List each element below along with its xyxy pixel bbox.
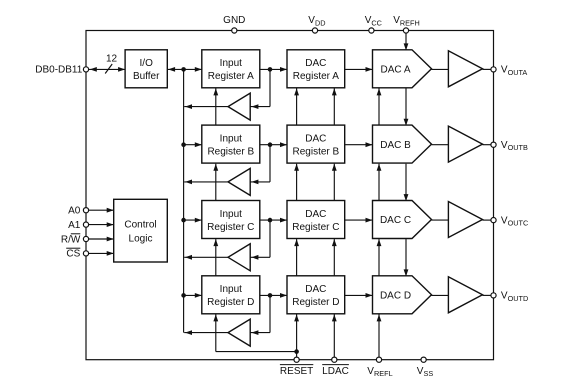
op-amp D [448, 277, 482, 313]
svg-text:Register D: Register D [207, 297, 254, 308]
wire RW input to control logic [89, 237, 114, 242]
wire DB0-DB11 to I/O buffer (bidirectional) [89, 67, 125, 72]
svg-text:Register C: Register C [207, 222, 254, 233]
svg-text:Register B: Register B [293, 147, 340, 158]
svg-text:R/W: R/W [61, 234, 81, 245]
wire CS input to control logic [89, 251, 114, 256]
wire op-amp A to V<sub>OUTA</sub> terminal [483, 68, 494, 70]
wire V<sub>REFH</sub> chain DAC C to DAC D [404, 239, 409, 276]
node: register D output junction [268, 293, 273, 298]
DAC register B [287, 125, 345, 163]
wire control chain Input Register C to Input Register B [213, 164, 218, 201]
wire Input Register D to DAC Register D [260, 293, 287, 298]
wire V<sub>REFL</sub> terminal to DAC D [377, 314, 382, 359]
wire bus to Input Register D [184, 293, 202, 298]
terminal RESET [280, 357, 313, 377]
wire bus to Input Register B [184, 142, 202, 147]
terminal VOUTB [491, 140, 528, 152]
wire DAC Register B to DAC B [345, 142, 373, 147]
wire readback: register D output down to buffer D input [250, 295, 270, 335]
svg-text:RESET: RESET [280, 366, 313, 377]
wire RESET chain DAC Register B to DAC Register A [294, 88, 299, 125]
terminal VREFH [393, 15, 420, 33]
svg-text:Register B: Register B [207, 147, 254, 158]
wire V<sub>REFH</sub> chain DAC B to DAC C [404, 164, 409, 201]
svg-text:VDD: VDD [308, 15, 325, 27]
svg-text:A1: A1 [68, 220, 81, 231]
wire control chain Input Register B to Input Register A [213, 88, 218, 125]
input register B [202, 125, 260, 163]
terminal LDAC [322, 357, 349, 377]
svg-text:VOUTC: VOUTC [501, 215, 528, 227]
wire V<sub>REFL</sub> chain DAC B to DAC A [377, 88, 382, 125]
svg-text:Input: Input [220, 284, 242, 295]
wire A1 input to control logic [89, 222, 114, 227]
svg-text:VSS: VSS [417, 366, 434, 378]
wire readback buffer B output to bus [184, 180, 228, 185]
I/O buffer U1 [125, 50, 167, 88]
wire readback: register B output down to buffer B input [250, 145, 270, 185]
svg-text:Register D: Register D [292, 297, 339, 308]
DAC register C [287, 201, 345, 239]
node: register C output junction [268, 218, 273, 223]
svg-text:Input: Input [220, 58, 242, 69]
svg-text:Control: Control [124, 219, 156, 230]
terminal VDD [308, 15, 325, 33]
input register C [202, 201, 260, 239]
wire LDAC chain DAC Register C to DAC Register B [332, 164, 337, 201]
terminal GND [223, 15, 245, 33]
wire RESET chain DAC Register C to DAC Register B [294, 164, 299, 201]
svg-text:Input: Input [220, 134, 242, 145]
node: register B output junction [268, 142, 273, 147]
terminal A1 [68, 220, 89, 231]
wire op-amp D to V<sub>OUTD</sub> terminal [483, 294, 494, 296]
svg-text:DAC: DAC [305, 58, 326, 69]
control logic block [114, 199, 168, 262]
wire DAC B to op-amp B [432, 144, 449, 146]
svg-text:VOUTB: VOUTB [501, 140, 528, 152]
svg-text:Buffer: Buffer [133, 71, 160, 82]
svg-text:Register A: Register A [208, 71, 254, 82]
DAC register A [287, 50, 345, 88]
readback buffer A [228, 93, 250, 120]
terminal DB0-DB11 [35, 65, 88, 76]
node: RESET junction [294, 349, 299, 354]
svg-text:Register C: Register C [292, 222, 339, 233]
wire LDAC terminal to DAC Register D [332, 314, 337, 359]
node: data bus junction row A [181, 67, 186, 72]
svg-text:DB0-DB11: DB0-DB11 [35, 65, 82, 76]
svg-text:Register A: Register A [293, 71, 339, 82]
svg-text:VOUTA: VOUTA [501, 65, 528, 77]
wire DAC C to op-amp C [432, 219, 449, 221]
wire A0 input to control logic [89, 208, 114, 213]
terminal R/W [61, 234, 89, 246]
svg-text:VREFH: VREFH [393, 15, 420, 27]
svg-text:A0: A0 [68, 206, 81, 217]
svg-text:DAC: DAC [305, 284, 326, 295]
terminal VCC [365, 15, 382, 33]
wire Input Register A to DAC Register A [260, 67, 287, 72]
terminal VOUTC [491, 215, 528, 227]
svg-text:DAC B: DAC B [380, 140, 411, 151]
svg-text:CS: CS [66, 249, 80, 260]
wire Input Register B to DAC Register B [260, 142, 287, 147]
op-amp C [448, 202, 482, 238]
wire op-amp C to V<sub>OUTC</sub> terminal [483, 219, 494, 221]
wire data bus vertical [183, 69, 185, 332]
wire readback buffer C output to bus [184, 255, 228, 260]
input register D [202, 276, 260, 314]
wire Input Register C to DAC Register C [260, 218, 287, 223]
bus width slash "12" [105, 53, 117, 73]
DAC D [373, 276, 432, 314]
wire DAC A to op-amp A [432, 68, 449, 70]
input register A [202, 50, 260, 88]
wire readback: register C output down to buffer C input [250, 220, 270, 260]
svg-text:Logic: Logic [129, 233, 153, 244]
wire LDAC chain DAC Register D to DAC Register C [332, 239, 337, 276]
readback buffer D [228, 319, 250, 346]
terminal VOUTD [491, 291, 528, 303]
svg-text:DAC A: DAC A [380, 65, 410, 76]
wire RESET feed to input-register chain [213, 314, 296, 351]
wire bus to Input Register C [184, 218, 202, 223]
svg-text:DAC D: DAC D [380, 291, 411, 302]
svg-text:VOUTD: VOUTD [501, 291, 528, 303]
wire V<sub>REFL</sub> chain DAC C to DAC B [377, 164, 382, 201]
wire V<sub>REFH</sub> terminal to DAC A [404, 33, 409, 51]
readback buffer C [228, 244, 250, 271]
wire readback: register A output down to buffer A input [250, 69, 270, 109]
wire V<sub>REFH</sub> chain DAC A to DAC B [404, 88, 409, 125]
wire DAC Register C to DAC C [345, 218, 373, 223]
wire V<sub>REFL</sub> chain DAC D to DAC C [377, 239, 382, 276]
wire readback buffer D output to bus [184, 330, 228, 335]
terminal A0 [68, 206, 89, 217]
node: data bus junction row B [181, 142, 186, 147]
wire DAC D to op-amp D [432, 294, 449, 296]
svg-text:DAC: DAC [305, 209, 326, 220]
wire readback buffer A output to bus [184, 104, 228, 109]
svg-text:I/O: I/O [140, 58, 154, 69]
wire RESET terminal to DAC Register D [294, 314, 299, 359]
wire op-amp B to V<sub>OUTB</sub> terminal [483, 144, 494, 146]
node: data bus junction row C [181, 218, 186, 223]
svg-text:GND: GND [223, 15, 245, 26]
wire DAC Register D to DAC D [345, 293, 373, 298]
wire control chain Input Register D to Input Register C [213, 239, 218, 276]
terminal CS [66, 248, 88, 260]
terminal VSS [417, 357, 434, 378]
wire LDAC chain DAC Register B to DAC Register A [332, 88, 337, 125]
wire I/O buffer to data bus node (bidirectional) [167, 67, 202, 72]
DAC A [373, 50, 432, 88]
svg-text:LDAC: LDAC [322, 366, 349, 377]
DAC register D [287, 276, 345, 314]
terminal VREFL [367, 357, 392, 378]
node: register A output junction [268, 67, 273, 72]
readback buffer B [228, 168, 250, 195]
DAC C [373, 201, 432, 239]
op-amp B [448, 126, 482, 162]
outer boundary [86, 31, 494, 360]
svg-text:VCC: VCC [365, 15, 382, 27]
svg-text:VREFL: VREFL [367, 366, 392, 378]
svg-text:DAC: DAC [305, 134, 326, 145]
svg-text:Input: Input [220, 209, 242, 220]
node: data bus junction row D [181, 293, 186, 298]
op-amp A [448, 51, 482, 87]
DAC B [373, 125, 432, 163]
svg-text:DAC C: DAC C [380, 215, 411, 226]
svg-text:12: 12 [106, 53, 118, 64]
wire RESET chain DAC Register D to DAC Register C [294, 239, 299, 276]
wire DAC Register A to DAC A [345, 67, 373, 72]
terminal VOUTA [491, 65, 528, 77]
